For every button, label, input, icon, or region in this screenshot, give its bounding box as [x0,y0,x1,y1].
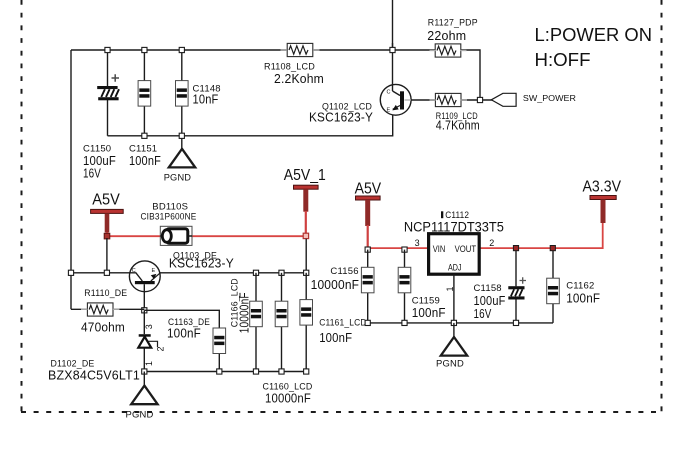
svg-text:KSC1623-Y: KSC1623-Y [309,109,373,124]
svg-text:2: 2 [489,238,494,248]
power symbol A5V (left) [91,192,124,237]
svg-text:C: C [387,90,391,96]
node base junction [142,308,147,313]
wire Q1103 base down [143,284,145,310]
node junctions bottom of top block [142,133,185,138]
text note L:POWER ON / H:OFF [535,25,653,70]
wire C1148 column [181,50,183,136]
svg-text:1: 1 [144,361,154,366]
transistor Q1102 [309,43,411,124]
wire mid rail [71,272,306,274]
resistor R1109 [435,93,479,132]
wire A5V red rail to A5V_1 [107,235,307,237]
wire C1151 column [143,50,145,136]
svg-text:L:POWER ON: L:POWER ON [535,25,653,45]
svg-text:4.7Kohm: 4.7Kohm [436,117,480,132]
svg-text:16V: 16V [474,306,492,321]
ground PGND bottom left [126,386,158,421]
capacitor C1162 [547,251,601,323]
node junctions on mid rail [68,270,308,275]
capacitor C1163 [167,317,226,354]
svg-text:CIB31P600NE: CIB31P600NE [141,211,197,222]
svg-text:A5V: A5V [355,180,382,197]
svg-text:2.2Kohm: 2.2Kohm [274,71,324,86]
resistor R1108 [264,43,324,86]
diode zener D1102 [48,310,165,382]
node R1109 output junction [477,97,482,102]
op-amp regulator IC1112 [404,210,504,274]
svg-text:2: 2 [155,346,165,351]
svg-text:R1110_DE: R1110_DE [84,288,127,299]
svg-text:A3.3V: A3.3V [583,179,622,196]
node red junction at A5V_1 corner [303,233,308,238]
wire bottom of top block [108,110,393,136]
svg-text:PGND: PGND [436,358,464,369]
node red junctions on VOUT rail [513,246,555,251]
node junctions on top rail [105,47,395,52]
wire red rail VOUT side to A3.3V corner [479,222,603,248]
wire Q1102 base to R1109 and node [404,99,493,101]
svg-text:PGND: PGND [164,173,192,184]
node red junction at A5V drop [104,233,110,239]
capacitor C1160_LCD [263,273,313,406]
wire bottom rail regulator block [368,322,553,324]
svg-text:22ohm: 22ohm [427,28,466,43]
resistor R1127 [427,18,478,58]
svg-text:R1127_PDP: R1127_PDP [428,18,478,29]
wire stub from top edge into node at top rail [392,0,394,50]
svg-text:SW_POWER: SW_POWER [523,94,576,103]
ground PGND regulator [436,337,467,369]
svg-text:E: E [152,268,156,274]
svg-text:VIN: VIN [433,244,446,254]
wire bottom rail left block [144,371,306,373]
svg-text:BZX84C5V6LT1: BZX84C5V6LT1 [48,367,140,382]
svg-text:16V: 16V [83,166,101,181]
svg-text:100nF: 100nF [129,153,161,168]
svg-text:10000nF: 10000nF [311,277,360,292]
wire black drop from A5V_1 corner to mid rail [305,239,307,273]
svg-text:10nF: 10nF [193,91,219,106]
svg-text:A5V: A5V [92,192,120,209]
capacitor C1148 [176,81,221,107]
svg-text:NCP1117DT33T5: NCP1117DT33T5 [404,220,504,235]
wire PGND stub top block [181,136,183,149]
wire grey lead stubs at resistor terminals [81,50,467,309]
svg-text:10000nF: 10000nF [237,292,252,333]
node black junctions under red rail [365,247,407,252]
svg-text:10000nF: 10000nF [265,390,311,405]
svg-text:C1161_LCD: C1161_LCD [319,317,367,328]
connector SW_POWER [491,93,576,106]
svg-text:100nF: 100nF [167,326,201,341]
svg-text:E: E [387,108,391,114]
capacitor C1150 (electrolytic) [83,74,119,181]
node junctions bottom rail [142,369,309,374]
svg-text:A5V_1: A5V_1 [284,167,326,184]
wire PGND stub bottom [143,372,145,386]
capacitor C1159 [398,250,446,323]
ground PGND top block [164,149,196,184]
svg-text:H:OFF: H:OFF [535,50,591,70]
resistor R1110 [81,288,127,335]
capacitor C1161_LCD [300,273,367,372]
svg-text:C1156: C1156 [330,266,358,277]
transistor Q1103 [129,250,234,291]
svg-text:KSC1623-Y: KSC1623-Y [169,256,234,271]
svg-text:C: C [132,268,136,274]
capacitor C1158 (electrolytic) [474,251,527,323]
svg-text:ADJ: ADJ [448,262,462,272]
wire red rail VIN side [368,247,429,249]
svg-text:1: 1 [445,286,455,291]
wire ADJ pin down [453,274,455,323]
wire PGND stub regulator [453,323,455,337]
wire left rail [70,50,72,309]
svg-text:VOUT: VOUT [455,244,477,254]
svg-text:100nF: 100nF [412,305,446,320]
svg-text:470ohm: 470ohm [81,320,125,335]
wire C1163 branch [144,310,219,371]
inductor bead BD110S [141,201,197,245]
power symbol A5V (right) [355,180,382,248]
wire black drop from A5V node to mid rail [106,238,108,273]
wire R1110 row [71,308,144,310]
capacitor C1151 [129,81,161,168]
power symbol A3.3V [583,179,622,224]
wire top rail from left rail through R1108, R1127 down to R1109 output node [71,50,480,100]
node junctions regulator bottom rail [365,320,519,325]
svg-text:100nF: 100nF [319,330,352,345]
svg-text:3: 3 [415,238,420,248]
svg-text:3: 3 [144,324,154,329]
capacitor C1156 [311,250,374,323]
svg-text:100nF: 100nF [566,290,600,305]
capacitor C1166_LCD [230,273,263,372]
svg-text:PGND: PGND [126,409,154,420]
wire C1150 column [107,50,109,136]
power symbol A5V_1 [284,167,326,234]
